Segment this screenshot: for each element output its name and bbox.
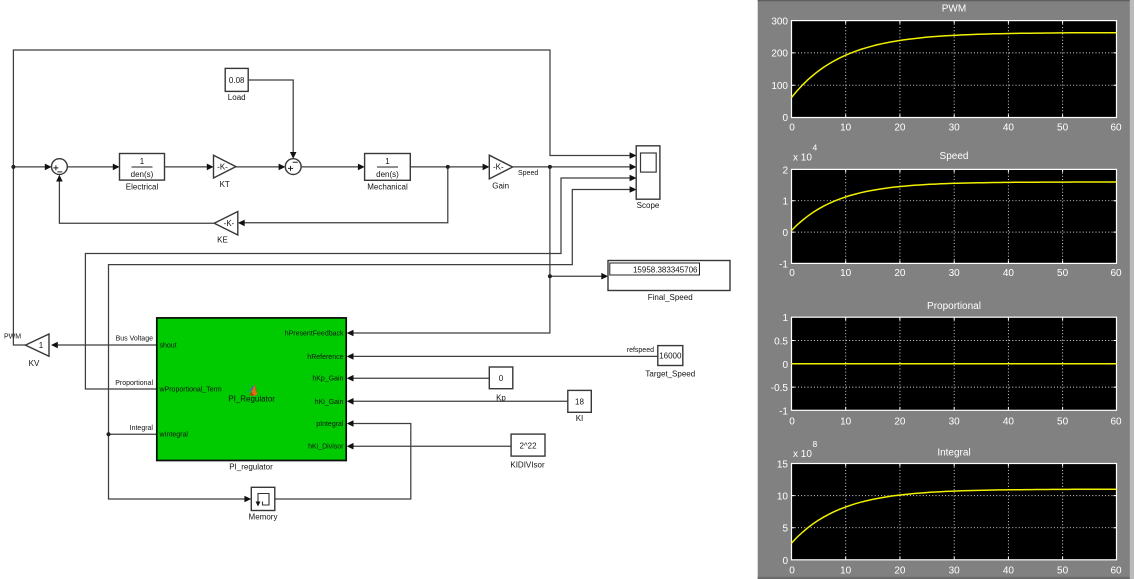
- svg-text:18: 18: [575, 397, 584, 406]
- svg-text:0: 0: [782, 556, 788, 567]
- svg-text:1: 1: [385, 157, 390, 166]
- svg-text:0: 0: [782, 360, 788, 371]
- svg-text:0: 0: [782, 113, 788, 124]
- ticks PWM: [792, 21, 1117, 118]
- svg-text:30: 30: [949, 268, 961, 279]
- svg-text:20: 20: [894, 566, 906, 577]
- wire KT to sum2: [236, 164, 286, 171]
- wire sum1 to Electrical: [67, 164, 119, 171]
- svg-text:Target_Speed: Target_Speed: [645, 370, 695, 379]
- gain KE (left pointing): [214, 212, 238, 245]
- wire Proportional net (green block to Scope in3): [85, 175, 636, 389]
- svg-text:0: 0: [789, 566, 795, 577]
- icon MATLAB logo: [245, 384, 257, 396]
- svg-text:KIDIVIsor: KIDIVIsor: [510, 460, 545, 469]
- sum junction S1: [52, 159, 68, 175]
- svg-text:40: 40: [1003, 122, 1015, 133]
- curve Speed: [792, 182, 1117, 231]
- svg-text:60: 60: [1110, 268, 1122, 279]
- svg-text:5: 5: [782, 524, 788, 535]
- svg-text:-1: -1: [779, 259, 788, 270]
- x labels Proportional: [789, 416, 1122, 427]
- svg-text:KI: KI: [576, 414, 584, 423]
- wire Speed net (Gain to Scope in2, Final_Speed, hPresentFeedback): [347, 164, 637, 337]
- svg-text:50: 50: [1057, 416, 1069, 427]
- svg-text:refspeed: refspeed: [627, 347, 654, 354]
- svg-text:10: 10: [840, 122, 852, 133]
- svg-text:8: 8: [813, 439, 818, 449]
- wire Memory to pIntegral: [275, 420, 411, 499]
- wire Electrical to KT: [165, 164, 214, 171]
- scope window panel background: [758, 0, 1134, 579]
- svg-text:den(s): den(s): [376, 170, 399, 179]
- svg-text:40: 40: [1003, 416, 1015, 427]
- svg-text:-K-: -K-: [493, 163, 504, 172]
- transfer function Electrical: [120, 154, 165, 192]
- scope block Scope: [636, 146, 660, 210]
- svg-text:Speed: Speed: [518, 170, 538, 177]
- svg-text:1: 1: [782, 313, 788, 324]
- svg-text:hReference: hReference: [307, 354, 343, 361]
- svg-text:-K-: -K-: [224, 219, 235, 228]
- svg-text:60: 60: [1110, 566, 1122, 577]
- svg-text:30: 30: [949, 416, 961, 427]
- svg-text:wProportional_Term: wProportional_Term: [159, 387, 222, 394]
- svg-text:0: 0: [789, 416, 795, 427]
- grid Integral: [792, 464, 1117, 560]
- y labels Proportional: [771, 313, 789, 417]
- svg-text:Proportional: Proportional: [927, 301, 981, 312]
- svg-text:0.5: 0.5: [774, 337, 788, 348]
- ticks Integral: [792, 464, 1117, 560]
- svg-text:Integral: Integral: [130, 425, 154, 432]
- svg-text:hKi_Divisor: hKi_Divisor: [308, 444, 344, 451]
- wire KE to sum1 bottom: [56, 175, 214, 224]
- exponent label x 10^8: [793, 439, 818, 460]
- svg-text:30: 30: [949, 566, 961, 577]
- svg-text:Mechanical: Mechanical: [367, 183, 408, 192]
- svg-text:60: 60: [1110, 416, 1122, 427]
- ticks Proportional: [792, 317, 1117, 410]
- svg-text:10: 10: [840, 566, 852, 577]
- constant Kp 0: [489, 367, 513, 402]
- gain Gain: [489, 155, 512, 190]
- gain KV (left pointing): [25, 334, 49, 368]
- svg-text:hKp_Gain: hKp_Gain: [312, 376, 343, 383]
- svg-text:15958.383345706: 15958.383345706: [633, 265, 698, 274]
- svg-text:x 10: x 10: [793, 153, 812, 164]
- plot Speed axes: [792, 169, 1117, 263]
- wire Target_Speed to hReference: [347, 353, 658, 360]
- svg-text:0: 0: [789, 268, 795, 279]
- exponent label x 10^4: [793, 143, 818, 164]
- constant KIDIVIsor 2^22: [510, 434, 545, 469]
- x labels Integral: [789, 566, 1122, 577]
- svg-text:2: 2: [782, 165, 788, 176]
- grid Proportional: [792, 317, 1117, 410]
- wire sum2 to Mechanical: [301, 164, 365, 171]
- svg-text:50: 50: [1057, 122, 1069, 133]
- svg-text:20: 20: [894, 268, 906, 279]
- svg-text:15: 15: [777, 460, 789, 471]
- svg-text:200: 200: [771, 49, 788, 60]
- svg-text:PWM: PWM: [942, 4, 966, 15]
- svg-text:shout: shout: [160, 342, 177, 349]
- ticks Speed: [792, 169, 1117, 263]
- constant KI 18: [568, 390, 592, 423]
- svg-text:Load: Load: [228, 93, 246, 102]
- wire Bus Voltage net (green block shout to KV): [51, 342, 157, 349]
- svg-text:20: 20: [894, 122, 906, 133]
- svg-text:10: 10: [840, 416, 852, 427]
- curve Integral: [792, 489, 1117, 543]
- constant Target_Speed 16000: [645, 346, 695, 379]
- svg-text:PWM: PWM: [4, 334, 21, 341]
- svg-text:50: 50: [1057, 268, 1069, 279]
- svg-text:Electrical: Electrical: [126, 182, 159, 191]
- gain KT: [214, 155, 236, 189]
- svg-text:-K-: -K-: [217, 163, 228, 172]
- svg-text:1: 1: [140, 157, 145, 166]
- grid Speed: [792, 169, 1117, 263]
- svg-text:Gain: Gain: [492, 182, 509, 191]
- svg-text:Bus Voltage: Bus Voltage: [116, 336, 153, 343]
- memory block Memory: [249, 487, 278, 521]
- svg-text:-1: -1: [779, 406, 788, 417]
- svg-text:x 10: x 10: [793, 449, 812, 460]
- svg-text:10: 10: [777, 492, 789, 503]
- curve Proportional: [792, 363, 1117, 365]
- svg-text:0: 0: [789, 122, 795, 133]
- svg-text:4: 4: [813, 143, 818, 153]
- y labels Speed: [779, 165, 788, 270]
- svg-text:KV: KV: [29, 359, 40, 368]
- wire Integral net (green block to Scope in4 and Memory): [107, 186, 637, 502]
- svg-text:0: 0: [782, 228, 788, 239]
- svg-text:0: 0: [499, 374, 504, 383]
- wire Mechanical to Gain with KE branch: [238, 164, 490, 227]
- svg-text:1: 1: [39, 341, 44, 350]
- constant Load 0.08: [225, 68, 248, 102]
- svg-text:300: 300: [771, 17, 788, 28]
- svg-text:100: 100: [771, 81, 788, 92]
- x labels PWM: [789, 122, 1122, 133]
- svg-text:50: 50: [1057, 566, 1069, 577]
- curve PWM: [792, 33, 1117, 98]
- y labels Integral: [777, 460, 789, 567]
- svg-text:20: 20: [894, 416, 906, 427]
- plot Proportional axes: [792, 317, 1117, 410]
- svg-text:10: 10: [840, 268, 852, 279]
- svg-text:40: 40: [1003, 268, 1015, 279]
- svg-text:Scope: Scope: [637, 201, 660, 210]
- svg-text:wIntegral: wIntegral: [159, 432, 189, 439]
- wire KIDIVIsor to hKi_Divisor: [347, 443, 511, 450]
- svg-text:2^22: 2^22: [519, 441, 537, 450]
- svg-text:Final_Speed: Final_Speed: [648, 293, 693, 302]
- svg-text:40: 40: [1003, 566, 1015, 577]
- svg-text:hKi_Gain: hKi_Gain: [315, 399, 344, 406]
- svg-text:pIntegral: pIntegral: [316, 421, 344, 428]
- wire Kp to hKp_Gain: [347, 375, 490, 382]
- grid PWM: [792, 21, 1117, 118]
- x labels Speed: [789, 268, 1122, 279]
- plot PWM axes: [792, 21, 1117, 118]
- svg-text:Proportional: Proportional: [115, 380, 153, 387]
- y labels PWM: [771, 17, 788, 124]
- svg-text:den(s): den(s): [131, 170, 154, 179]
- svg-text:PI_regulator: PI_regulator: [229, 462, 273, 471]
- sum junction S2: [285, 159, 301, 175]
- subsystem PI_Regulator (green): [157, 318, 346, 471]
- svg-text:Memory: Memory: [249, 513, 278, 522]
- svg-text:Integral: Integral: [937, 448, 970, 459]
- wire Load to sum2: [248, 80, 296, 159]
- transfer function Mechanical: [365, 154, 411, 192]
- svg-text:hPresentFeedback: hPresentFeedback: [285, 331, 344, 338]
- svg-text:Speed: Speed: [940, 151, 969, 162]
- wire PWM net (KV output to sum1 and Scope in1): [11, 50, 636, 345]
- svg-text:1: 1: [782, 197, 788, 208]
- svg-text:16000: 16000: [659, 352, 682, 361]
- plot Integral axes: [792, 464, 1117, 560]
- svg-text:60: 60: [1110, 122, 1122, 133]
- wire KI to hKi_Gain: [347, 398, 568, 405]
- svg-text:KE: KE: [217, 236, 228, 245]
- svg-text:-0.5: -0.5: [771, 383, 789, 394]
- svg-text:KT: KT: [220, 180, 230, 189]
- svg-text:0.08: 0.08: [229, 76, 245, 85]
- display Final_Speed: [608, 261, 730, 303]
- svg-text:30: 30: [949, 122, 961, 133]
